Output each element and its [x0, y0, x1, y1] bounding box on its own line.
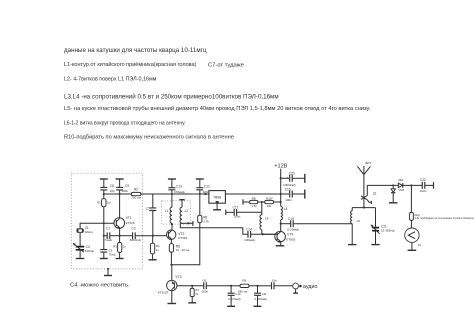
svg-text:100n: 100n: [202, 289, 209, 293]
ground right of C20: [304, 174, 306, 183]
resistor R9: [231, 279, 257, 294]
svg-text:L2: L2: [185, 209, 189, 213]
svg-text:0,047мкф: 0,047мкф: [255, 297, 268, 301]
svg-text:L6: L6: [373, 192, 377, 196]
node R8-R10: [261, 201, 263, 203]
terminal bar C17: [225, 210, 227, 215]
terminal bar L2: [192, 221, 194, 226]
resistor R6: [198, 194, 210, 224]
svg-text:16p: 16p: [110, 189, 115, 193]
ground under C5: [100, 258, 108, 260]
node emitter: [119, 235, 121, 237]
node rail-C12: [199, 193, 201, 195]
svg-text:2.7k: 2.7k: [203, 220, 209, 224]
inductor L2: [179, 200, 188, 224]
svg-text:C15: C15: [288, 217, 294, 221]
capacitor C5: [100, 236, 116, 259]
tank dashed box L1 L2: [162, 201, 191, 224]
trimmer capacitor C4: [73, 243, 95, 258]
capacitor C14: [244, 228, 275, 243]
svg-text:100n: 100n: [234, 214, 241, 218]
capacitor C11: [254, 286, 268, 306]
wire VT1 base line: [80, 223, 114, 229]
svg-text:L5- на куске пластиковой трубы: L5- на куске пластиковой трубы внешний д…: [64, 105, 371, 112]
svg-text:R3: R3: [113, 245, 117, 249]
svg-text:VT3: VT3: [175, 275, 181, 279]
svg-text:С4 -можно неставить.: С4 -можно неставить.: [70, 282, 130, 288]
svg-text:100пф: 100пф: [85, 249, 95, 253]
svg-text:680 ом: 680 ом: [238, 289, 247, 293]
svg-text:100n: 100n: [285, 198, 292, 202]
svg-text:L2- 4-7витков поверх L1 ПЭЛ-0,: L2- 4-7витков поверх L1 ПЭЛ-0,16мм: [64, 76, 157, 82]
svg-text:R9: R9: [242, 279, 246, 283]
svg-text:L6-1-2 витка вокруг провода от: L6-1-2 витка вокруг провода отходящего н…: [64, 120, 186, 126]
svg-text:0,047мкф: 0,047мкф: [228, 297, 241, 301]
transistor VT1: [114, 216, 135, 229]
svg-text:100n: 100n: [420, 189, 427, 193]
svg-text:7808: 7808: [213, 195, 221, 199]
svg-text:R10-подбирать по максимуму неи: R10-подбирать по максимуму неискаженного…: [64, 135, 234, 141]
svg-text:24к: 24к: [267, 204, 272, 208]
svg-text:C22: C22: [420, 178, 426, 182]
node L2 tap: [187, 222, 189, 224]
svg-text:С7-от тудаже: С7-от тудаже: [208, 63, 244, 69]
svg-text:R8: R8: [252, 197, 256, 201]
node rail 12V R10: [280, 201, 282, 203]
capacitor C9: [116, 184, 129, 194]
audio input jack: [293, 283, 318, 293]
ground under C10: [227, 305, 235, 307]
svg-text:C6: C6: [202, 278, 206, 282]
inductor L1: [165, 194, 172, 224]
svg-text:C11: C11: [262, 292, 267, 296]
oscillator shield dashed box: [72, 173, 143, 269]
capacitor C17: [226, 205, 262, 218]
svg-text:VD1: VD1: [398, 178, 404, 182]
resistor R8: [243, 197, 265, 208]
capacitor C7: [146, 194, 157, 236]
node L1-VT2 collector: [171, 223, 173, 225]
ground under R4: [149, 259, 157, 261]
svg-text:Ант: Ант: [365, 161, 371, 165]
wire VT1 collector: [119, 194, 121, 218]
svg-text:C3: C3: [131, 227, 135, 231]
inductor L5 with tap: [351, 208, 361, 245]
meter PA1: [405, 228, 422, 247]
svg-text:L4: L4: [284, 207, 288, 211]
svg-text:470мкф: 470мкф: [174, 190, 185, 194]
capacitor C8: [100, 184, 115, 194]
svg-text:C12: C12: [204, 185, 210, 189]
svg-text:10-365пф: 10-365пф: [381, 229, 395, 233]
svg-text:0,01мкф: 0,01мкф: [287, 227, 299, 231]
antenna: [357, 161, 371, 207]
svg-text:C1: C1: [106, 227, 110, 231]
inductor L4: [281, 206, 288, 223]
node rail-C9: [119, 193, 121, 195]
svg-text:1к: 1к: [123, 245, 127, 249]
ground under VT3: [168, 303, 177, 305]
diode VD2: [391, 185, 405, 202]
svg-text:VT1: VT1: [126, 216, 132, 220]
capacitor C3: [120, 227, 153, 242]
wire base divider: [104, 223, 107, 235]
capacitor C22: [420, 178, 427, 193]
ground above C8: [100, 179, 108, 187]
node 7808 input: [204, 193, 206, 195]
svg-text:1м: 1м: [107, 201, 111, 205]
svg-text:C7: C7: [146, 207, 150, 211]
ground under meter: [408, 242, 417, 250]
transistor VT4: [263, 224, 296, 246]
capacitor C1: [104, 227, 119, 242]
wire to VT2 base: [153, 235, 167, 237]
resistor R1: [97, 194, 110, 223]
capacitor C10: [228, 286, 242, 306]
capacitor C16: [281, 187, 305, 202]
svg-text:R1: R1: [97, 201, 101, 205]
wire detector line: [367, 184, 433, 186]
svg-text:C14: C14: [246, 228, 252, 232]
svg-text:200 ом: 200 ом: [131, 196, 141, 200]
supply rail wire (8V): [104, 193, 281, 195]
svg-text:C9: C9: [125, 184, 129, 188]
node C1 left: [103, 235, 105, 237]
inductor L3: [260, 202, 269, 234]
diode VD1: [398, 178, 404, 188]
svg-text:VT4: VT4: [287, 233, 293, 237]
svg-text:L3,L4 -на сопротивлений 0.5 вт: L3,L4 -на сопротивлений 0.5 вт и 250ком …: [64, 94, 279, 101]
svg-text:R10*: R10*: [266, 197, 274, 201]
node C10: [230, 285, 232, 287]
transistor VT3: [158, 265, 182, 304]
ground under R7: [188, 302, 196, 304]
capacitor C13: [168, 185, 185, 194]
svg-text:10н: 10н: [272, 278, 277, 282]
ground under R3: [116, 258, 124, 260]
wire R5 node to R6: [171, 223, 199, 265]
shield ground stub: [104, 269, 112, 276]
resistor R4: [151, 236, 160, 260]
svg-text:2к: 2к: [195, 292, 199, 296]
svg-text:10мгц: 10мгц: [85, 230, 93, 234]
svg-text:3v: 3v: [418, 243, 422, 247]
node shield: [107, 268, 109, 270]
ground above C9: [116, 179, 124, 187]
trimmer capacitor C21: [371, 208, 395, 245]
wire 12V rail vertical: [280, 169, 282, 207]
node C3/C7: [152, 235, 154, 237]
svg-text:L3: L3: [265, 217, 269, 221]
wire node horizontals: [352, 207, 375, 209]
regulator U1 7808: [209, 191, 226, 204]
svg-text:100мкф: 100мкф: [244, 238, 255, 242]
svg-text:VD2: VD2: [398, 188, 404, 192]
ground under VD2: [389, 202, 398, 204]
svg-text:КТ3107: КТ3107: [158, 291, 169, 295]
transistor VT2: [167, 224, 188, 240]
ground above C12: [196, 179, 204, 188]
capacitor C19 10n: [258, 278, 293, 289]
svg-text:L5: L5: [357, 219, 361, 223]
svg-text:аудио: аудио: [303, 284, 318, 290]
capacitor C20: [281, 172, 305, 188]
svg-text:L1-контур от китайского приёмн: L1-контур от китайского приёмника(красна…: [64, 61, 197, 68]
capacitor C15: [281, 217, 353, 232]
terminal bar R8: [242, 199, 244, 204]
capacitor C12: [196, 185, 210, 194]
resistor R5: [169, 239, 189, 264]
ground under C4: [76, 258, 85, 260]
svg-text:3-5к подбираем по отклонению с: 3-5к подбираем по отклонению стрелки изм…: [415, 216, 474, 220]
svg-text:C20: C20: [289, 172, 295, 176]
ground under VT4: [276, 245, 285, 247]
resistor R3: [113, 236, 126, 259]
ground under 7808: [213, 203, 221, 210]
ground under L5: [348, 244, 356, 246]
svg-text:КТ903: КТ903: [286, 237, 295, 241]
node VT4 base: [262, 233, 264, 235]
notes text block: [64, 47, 371, 140]
node C11: [256, 285, 258, 287]
svg-text:КТ315: КТ315: [126, 221, 135, 225]
node meter branch: [410, 184, 412, 186]
svg-text:C13: C13: [176, 185, 182, 189]
svg-text:6800пф: 6800пф: [130, 238, 141, 242]
wire L2 bottom: [180, 222, 193, 224]
svg-text:данные на катушки для частоты: данные на катушки для частоты кварца 10-…: [64, 47, 207, 54]
resistor R2: [131, 187, 141, 199]
capacitor C6: [202, 278, 231, 293]
node 12V rail: [280, 193, 282, 195]
crystal Z1: [77, 226, 93, 246]
node VT4 collector: [280, 223, 282, 225]
ground above C13: [168, 179, 176, 188]
node 12V C20: [280, 177, 282, 179]
svg-text:КТ315: КТ315: [178, 236, 187, 240]
resistor Rpr: [410, 185, 474, 228]
wire L2 to C14: [180, 223, 247, 234]
svg-text:L1: L1: [165, 209, 169, 213]
resistor R7: [190, 286, 199, 303]
node VD2: [392, 184, 394, 186]
node antenna L5 C21: [363, 207, 365, 209]
svg-text:C17: C17: [233, 205, 239, 209]
ground under C21: [371, 244, 379, 246]
wire VT1 emitter: [119, 228, 121, 235]
svg-text:1к: 1к: [156, 248, 160, 252]
svg-text:C16: C16: [285, 187, 291, 191]
ground under C11: [254, 305, 262, 307]
terminal bar C22: [433, 182, 435, 189]
svg-text:75пф: 75пф: [109, 252, 117, 256]
svg-text:R2: R2: [134, 187, 138, 191]
node VT1 base: [103, 222, 105, 224]
svg-text:C8: C8: [110, 184, 114, 188]
node rail-C8: [103, 193, 105, 195]
ground right of C16: [304, 190, 306, 199]
resistor R10: [265, 197, 281, 208]
node R5 bottom: [170, 264, 172, 266]
node R7: [191, 285, 193, 287]
wire VT3 base line: [177, 285, 204, 287]
svg-text:+: +: [287, 175, 289, 179]
svg-text:1.5к: 1.5к: [251, 204, 257, 208]
svg-text:100n: 100n: [121, 189, 128, 193]
svg-text:10 - 20 ом: 10 - 20 ом: [176, 248, 189, 252]
svg-text:7пмф: 7пмф: [104, 238, 112, 242]
node rail-C13: [171, 193, 173, 195]
inductor L6 pickup: [361, 185, 376, 204]
